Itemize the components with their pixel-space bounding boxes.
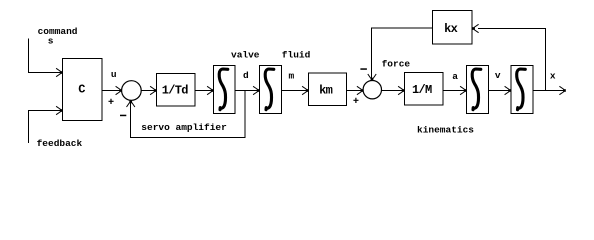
svg-text:force: force [382,59,411,70]
integrator 3 box [467,66,489,114]
label + of junction 2 [353,98,358,103]
wire x branch up to kx [478,29,545,91]
block 1/M [405,73,444,106]
svg-text:valve: valve [231,49,260,60]
wire feedback input [29,111,61,144]
svg-text:x: x [550,71,556,82]
wire 1/M to integrator 3 [443,90,465,92]
svg-text:servo amplifier: servo amplifier [141,122,227,133]
arrowhead up into junction 1 bottom [127,101,135,107]
wire junction 1 to 1/Td [141,90,154,92]
arrowhead into integrator 4 [505,86,511,94]
svg-text:m: m [289,71,295,82]
svg-text:1/Td: 1/Td [162,83,189,97]
wire integrator 1 to integrator 2 [235,90,258,92]
integrator 1 (valve) box [214,66,236,114]
wire kx to junction 2 top [372,28,433,79]
integrator 2 S glyph [265,69,274,110]
arrowhead into 1/Td [150,86,156,94]
svg-text:d: d [243,70,249,81]
summing junction 2 [363,81,381,99]
svg-text:1/M: 1/M [412,83,432,97]
arrowhead into integrator 1 [207,86,213,94]
wire servo feedback loop [131,91,245,138]
block 1/Td [157,74,196,107]
integrator 1 S glyph [219,69,228,110]
wire command input [29,39,61,73]
svg-text:kx: kx [444,22,458,36]
svg-text:feedback: feedback [37,138,83,149]
label - of junction 1 [120,115,126,117]
label + of junction 1 [109,99,114,104]
wire 1/Td to integrator 1 [195,90,212,92]
wire C output [102,90,120,92]
wire integrator 4 to output x [533,90,564,92]
arrowhead output x [559,86,565,94]
svg-text:C: C [78,83,85,97]
arrowhead into summing junction 1 [116,86,122,94]
arrowhead into kx right side [472,24,478,32]
arrowhead into C top input [56,68,62,76]
arrowhead into km [302,86,308,94]
integrator 3 S glyph [472,69,481,110]
svg-text:kinematics: kinematics [417,125,474,136]
arrowhead down into junction 2 top [368,74,376,80]
arrowhead into integrator 2 [253,86,259,94]
summing junction 1 [122,81,142,101]
svg-text:s: s [48,36,54,47]
arrowhead into summing junction 2 [357,86,363,94]
svg-text:a: a [452,71,458,82]
svg-text:v: v [495,70,501,81]
block kx [433,11,473,45]
svg-text:fluid: fluid [282,49,311,60]
integrator 4 box [511,66,533,114]
arrowhead into C bottom input [56,106,62,114]
block km [309,73,347,106]
integrator 4 S glyph [517,69,526,110]
svg-text:km: km [319,84,333,98]
label - of junction 2 [360,68,367,70]
svg-text:command: command [38,26,78,37]
wire junction 2 to 1/M [382,90,403,92]
arrowhead into integrator 3 [460,86,466,94]
svg-text:u: u [111,69,117,80]
wire integrator 3 to integrator 4 [489,90,510,92]
wire km to junction 2 [347,90,362,92]
wire integrator 2 to km [282,90,307,92]
integrator 2 (fluid) box [260,66,282,114]
arrowhead into 1/M [398,86,404,94]
block C [63,59,103,121]
